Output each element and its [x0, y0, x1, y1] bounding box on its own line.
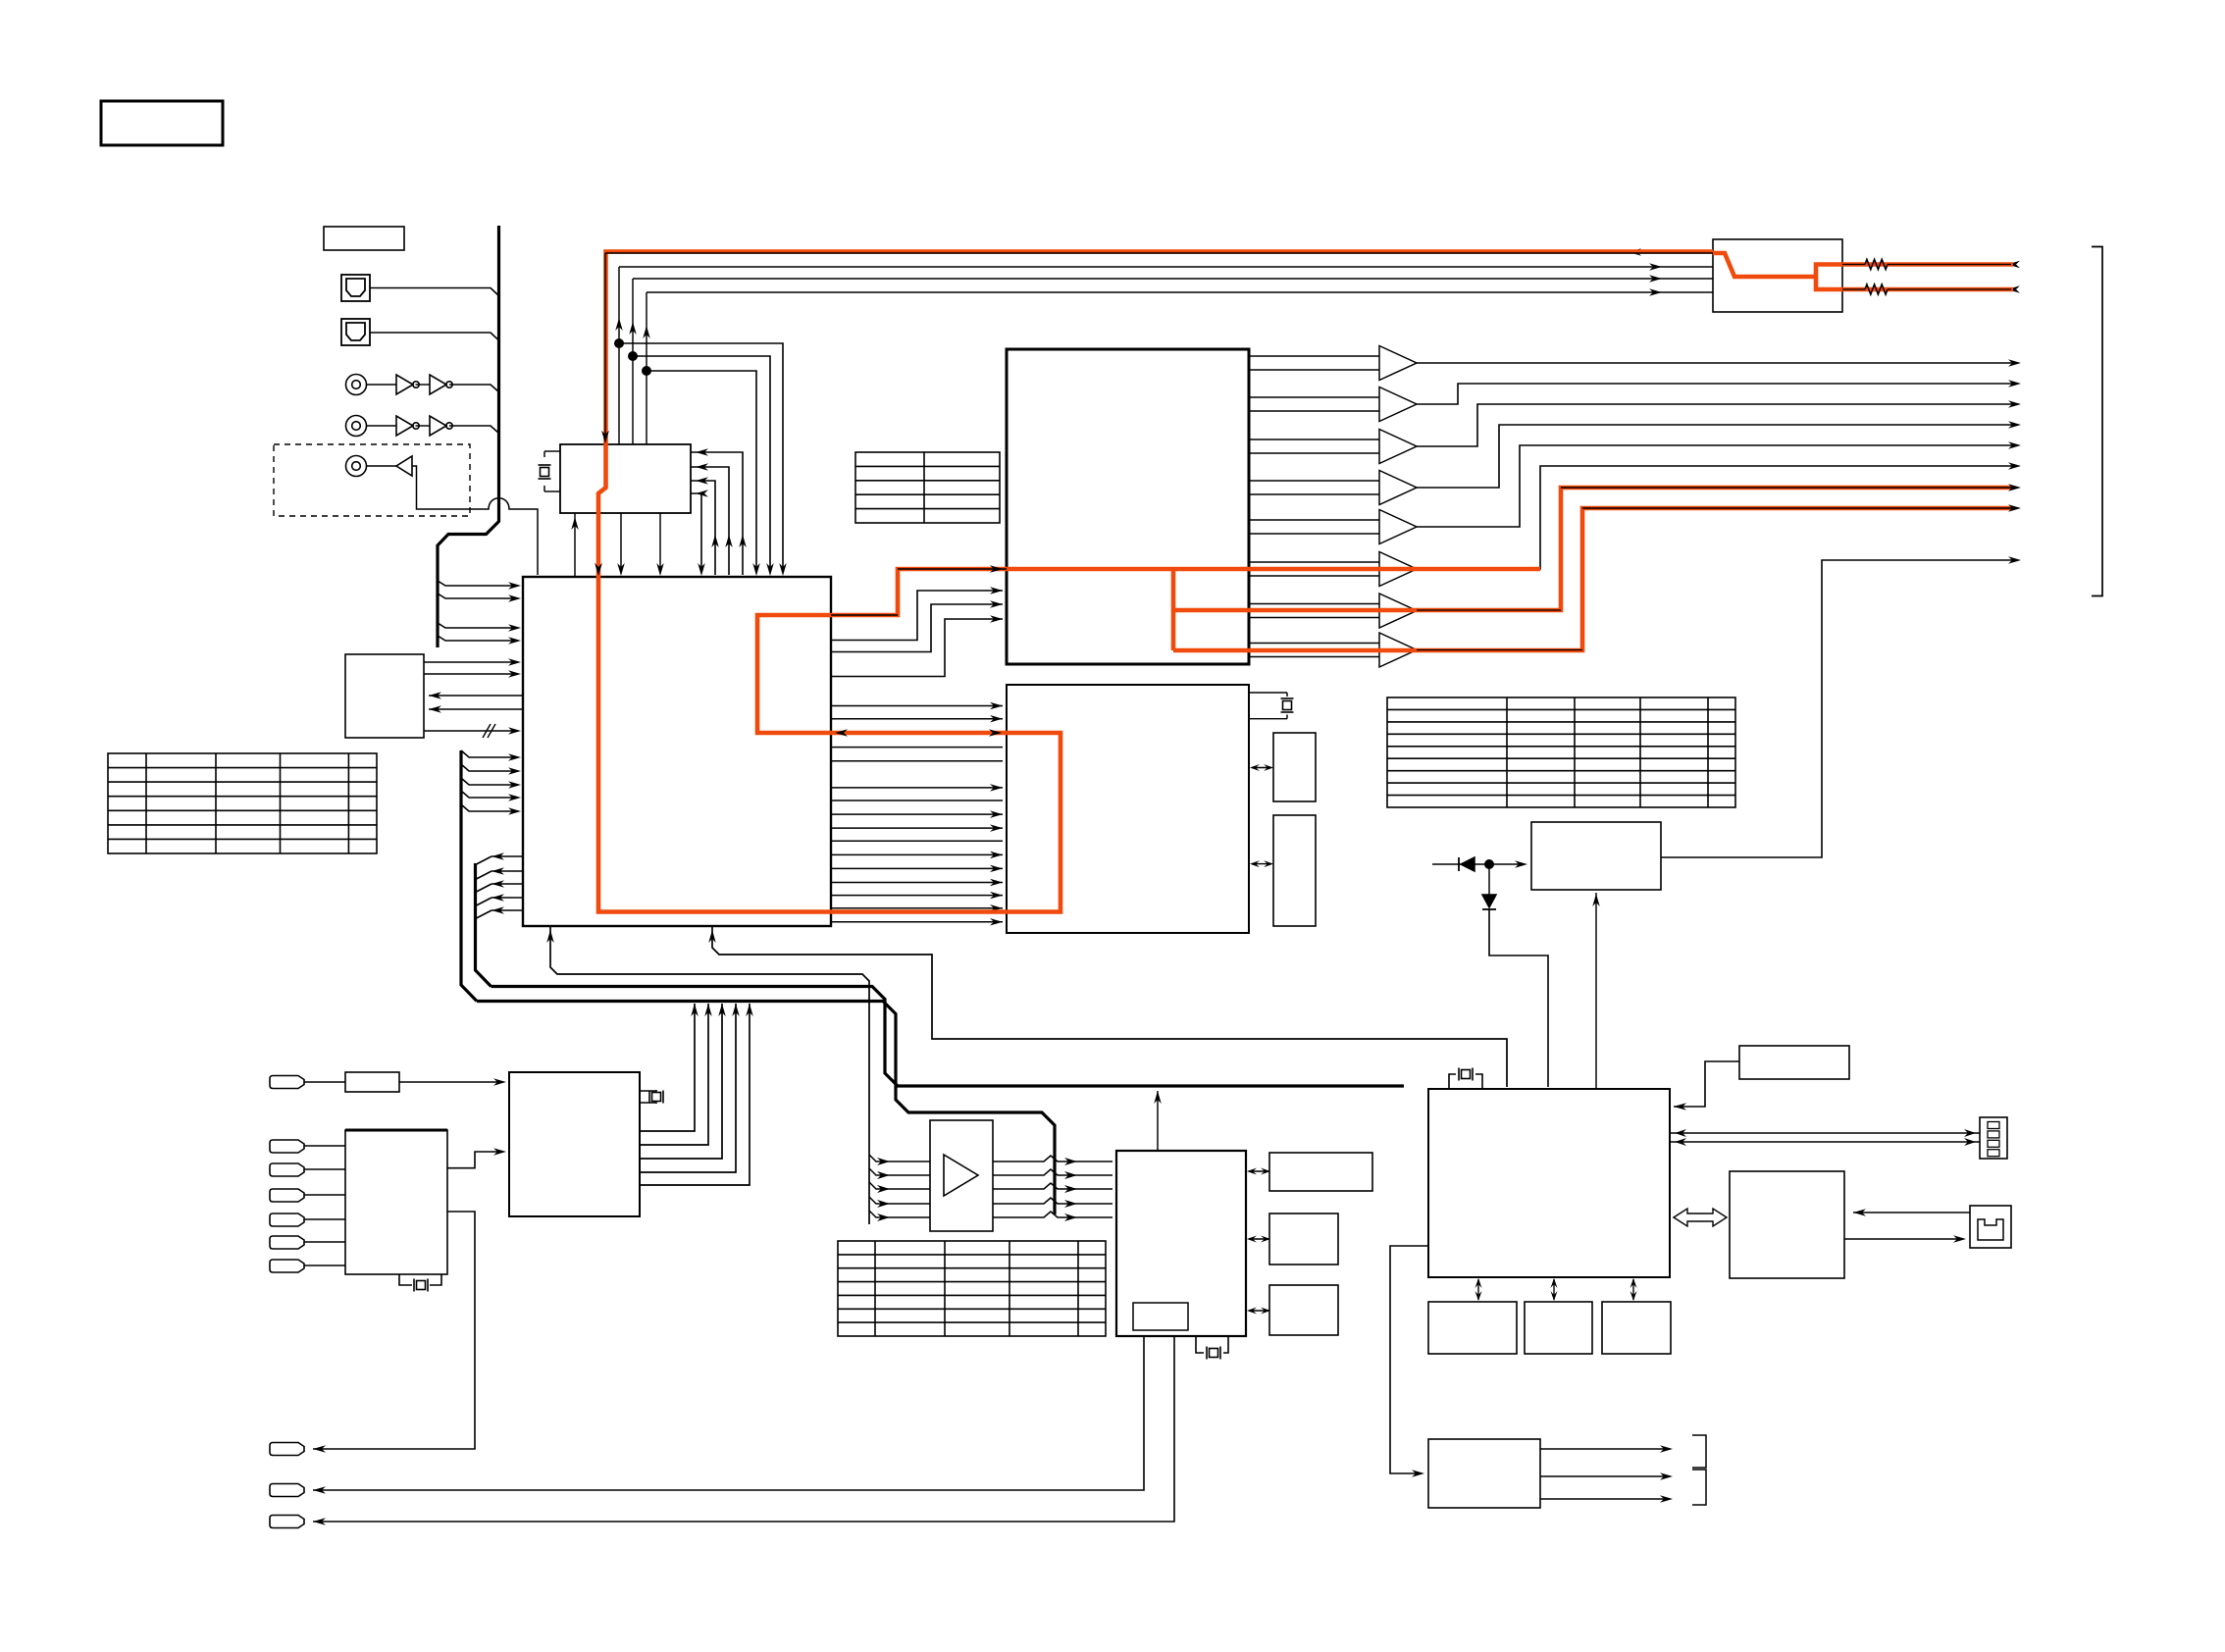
- wire top line 2: [619, 266, 1713, 268]
- crystal X6: [640, 1090, 656, 1091]
- audio DSP U6: [1116, 1151, 1246, 1336]
- wire J4 to bus: [449, 426, 499, 434]
- wire top line 4: [647, 291, 1713, 293]
- node power junction: [1484, 859, 1494, 869]
- memory box M1: [1428, 1302, 1517, 1354]
- bidir arrow U5 to U5-B: [1252, 863, 1271, 865]
- wire U11 in 1: [429, 695, 523, 697]
- branch line2 to U3: [619, 343, 783, 572]
- phone jack J10: [1970, 1206, 2011, 1248]
- branch line3 to U3: [633, 356, 770, 572]
- wire CPU to power box: [1595, 893, 1597, 1089]
- wire U6 to bus: [1157, 1091, 1159, 1151]
- power regulator box: [1531, 822, 1661, 890]
- buffer1 output: [1417, 362, 2013, 364]
- arrow highlighted into U3 top: [595, 563, 602, 576]
- inverter chain J3: [367, 384, 397, 386]
- wire U2 right pin 4: [691, 493, 701, 572]
- wire CPU to DIP 2: [1670, 1141, 1980, 1143]
- crystal X5: [1449, 1074, 1456, 1089]
- balun box: [345, 1072, 399, 1092]
- optical connector J1: [341, 275, 370, 301]
- wire line1 drop to U2: [604, 252, 606, 442]
- wire line3 drop to U2: [632, 279, 634, 444]
- buffer5 output: [1417, 445, 2013, 527]
- video encoder U4: [1007, 349, 1249, 664]
- connector J7a: [270, 1140, 304, 1153]
- buffer7 output black core: [1417, 488, 2013, 610]
- sram box U5-A: [1273, 733, 1316, 801]
- table pin list T2: [108, 753, 377, 853]
- inverter chain J4: [367, 425, 397, 427]
- bidir arrow CPU-M3: [1632, 1279, 1634, 1300]
- arrow highlighted into U4: [990, 565, 1003, 573]
- label box SPDIF group: [324, 227, 404, 250]
- highlight path main video signal: [1816, 265, 2013, 290]
- U3 output taps to bus: [492, 855, 523, 857]
- wire U3 pin561 audio bus: [550, 927, 869, 1225]
- memory box M3: [1602, 1302, 1671, 1354]
- wire U3-U4 net3: [831, 619, 1003, 677]
- table pin list T1: [855, 452, 1000, 523]
- rca connector J4: [346, 416, 367, 437]
- buffer bus pairs U4 outputs: [1251, 355, 1380, 357]
- reset out 2: [1540, 1475, 1669, 1477]
- bidir arrow CPU-M1: [1477, 1279, 1479, 1300]
- wire U3-U4 net1: [831, 591, 1003, 641]
- resistor R1: [1865, 260, 1888, 270]
- video decoder U5: [1007, 685, 1249, 933]
- output bracket: [2092, 247, 2102, 596]
- reset box U14: [1428, 1439, 1540, 1508]
- wire U2 bottom pin C: [620, 513, 622, 572]
- wire U12 to CPU: [1674, 1061, 1739, 1107]
- arrow highlighted into U2: [601, 431, 609, 443]
- arrow highlighted out1: [2008, 484, 2021, 491]
- reset out 3: [1540, 1498, 1669, 1500]
- buffer amp A1: [396, 456, 412, 476]
- reset out 1: [1540, 1448, 1669, 1450]
- IF box U10: [345, 1130, 447, 1274]
- bus tuner signals thick: [477, 1002, 1055, 1215]
- buffer8 output black core: [1417, 508, 2013, 650]
- wire RJ to comm: [1853, 1212, 1970, 1213]
- table pin list T3: [838, 1241, 1106, 1336]
- amp input taps: [869, 1155, 930, 1162]
- bracket reset 1: [1692, 1435, 1706, 1468]
- wire line2 drop to U2: [618, 267, 620, 444]
- wire J2 to bus: [370, 333, 499, 340]
- wire U11 out 2: [424, 673, 518, 675]
- wire power box output: [1661, 560, 2013, 857]
- open bidir arrow CPU-comm: [1674, 1209, 1727, 1226]
- wire J6 to balun: [304, 1081, 345, 1083]
- bidir arrow U6-A2: [1249, 1238, 1268, 1240]
- wire U2 bottom pin D: [659, 513, 661, 572]
- connector J7c: [270, 1189, 304, 1202]
- resistor overlay R1R2: [1865, 260, 1888, 270]
- wire IF to connector J8: [313, 1212, 475, 1449]
- tuner U9: [509, 1072, 640, 1216]
- rca connector J5: [346, 456, 367, 477]
- arrow video in 2: [2007, 285, 2020, 293]
- audio amp U15: [930, 1120, 993, 1231]
- crystal X4: [1249, 692, 1287, 694]
- wire IF to tuner: [447, 1152, 502, 1168]
- output buffers: [1379, 346, 1417, 381]
- highlight core wires: [605, 252, 1713, 254]
- wire CPU to DIP 1: [1670, 1132, 1980, 1134]
- bracket reset 2: [1692, 1470, 1706, 1505]
- audio box A2: [1269, 1213, 1338, 1265]
- wire comm to RJ: [1844, 1238, 1962, 1240]
- comm box U13: [1730, 1171, 1844, 1278]
- bidir arrow U6-A3: [1249, 1310, 1268, 1312]
- wire U2 bottom pin A: [574, 513, 576, 577]
- antenna connector J6: [270, 1076, 304, 1089]
- dip switch S1: [1980, 1117, 2007, 1159]
- connector J8: [270, 1443, 304, 1456]
- wire U2 right pin 2: [691, 467, 729, 575]
- connector J7e: [270, 1236, 304, 1249]
- table pin list T4: [1387, 697, 1735, 807]
- arrow highlighted into U5: [989, 729, 1002, 737]
- arrow highlighted into U3: [835, 729, 848, 737]
- node line3 junction: [628, 351, 638, 361]
- highlight branch chroma: [1171, 569, 1176, 650]
- node line2 junction: [614, 338, 624, 348]
- wire U2 bottom pin B highlighted: [597, 513, 599, 572]
- wire balun to tuner: [399, 1081, 502, 1083]
- tuner signal bus riser: [461, 750, 477, 1002]
- optical connector J2: [341, 319, 370, 345]
- amp outputs to audio DSP: [993, 1156, 1112, 1162]
- wire top line 1 to driver: [605, 251, 1713, 253]
- wire U2 right pin 1: [691, 452, 743, 575]
- wire U3 pin726 to CPU: [712, 927, 1507, 1088]
- bidir arrow U6-A1: [1249, 1170, 1268, 1172]
- audio spdif bus wire: [438, 226, 499, 647]
- title block: [101, 101, 223, 145]
- bus taps tuner signals into U3: [461, 750, 517, 757]
- bus U3 outputs to CPU thick: [492, 987, 1405, 1087]
- wire J3 to bus: [449, 385, 499, 392]
- bidir arrow U5 to U5-A: [1252, 767, 1271, 769]
- microcontroller CPU: [1428, 1089, 1670, 1277]
- wire U6 to connector J9a: [313, 1336, 1144, 1490]
- U6 internal rom: [1133, 1303, 1188, 1330]
- diode D2: [1488, 864, 1490, 895]
- node line4 junction: [642, 366, 651, 376]
- connector J7f: [270, 1260, 304, 1272]
- wire CPU to reset box: [1390, 1246, 1428, 1473]
- AV switch box U11: [345, 654, 424, 738]
- crystal X3: [1196, 1336, 1204, 1353]
- U3-U5 interconnect lines: [831, 705, 1003, 707]
- highlight core wires right: [1842, 264, 1865, 266]
- bus taps into video processor: [438, 581, 517, 586]
- tuner output risers: [640, 1004, 695, 1131]
- branch line4 to U3: [647, 371, 756, 572]
- buffer2 output: [1417, 384, 2013, 404]
- resistor R2: [1865, 284, 1888, 294]
- connector J7b: [270, 1163, 304, 1176]
- video driver U8: [1713, 239, 1842, 312]
- arrow highlighted out2: [2008, 504, 2021, 512]
- wire top line 3: [633, 278, 1713, 280]
- wire U11 out 1: [424, 661, 518, 663]
- crystal X2: [544, 450, 560, 452]
- crystal X7: [399, 1274, 412, 1285]
- memory box M2: [1525, 1302, 1592, 1354]
- wire J5 to video block: [412, 466, 538, 575]
- wire U11 in 2: [429, 708, 523, 710]
- audio box A3: [1269, 1285, 1338, 1335]
- arrow video in 1: [2007, 261, 2020, 269]
- buffer3 output: [1417, 404, 2013, 446]
- wire U11 bus line: [424, 730, 518, 732]
- wire line4 drop to U2: [646, 292, 647, 444]
- buffer6 output: [1417, 466, 2013, 569]
- audio box A1: [1269, 1153, 1372, 1191]
- connector J9a: [270, 1484, 304, 1497]
- highlight branch chroma2: [1173, 508, 2013, 650]
- rca connector J3: [346, 375, 367, 395]
- wire J1 to bus: [370, 288, 499, 296]
- top right box U12: [1739, 1046, 1849, 1079]
- dashed option box: [274, 444, 470, 516]
- connector J7d: [270, 1213, 304, 1226]
- wire U3-U4 net2: [831, 604, 1003, 652]
- diode D1: [1432, 863, 1461, 865]
- wire U2 right pin 3: [691, 481, 715, 575]
- connector J9b: [270, 1516, 304, 1528]
- wire U6 to connector J9b: [313, 1336, 1174, 1522]
- video DAC U2: [560, 444, 691, 513]
- sram box U5-B: [1273, 815, 1316, 926]
- video processor U3: [523, 577, 831, 926]
- wire power to CPU: [1489, 909, 1548, 1087]
- U3 output bus riser: [476, 863, 492, 987]
- bidir arrow CPU-M2: [1553, 1279, 1555, 1300]
- buffer4 output: [1417, 425, 2013, 488]
